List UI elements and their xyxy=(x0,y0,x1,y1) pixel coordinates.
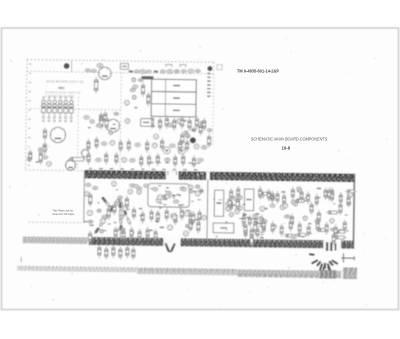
wire jumper W7 xyxy=(331,259,338,264)
resistor R79 xyxy=(115,152,118,165)
capacitor C5 xyxy=(97,64,103,68)
capacitor C11 xyxy=(160,70,165,73)
resistor R189 xyxy=(289,219,292,232)
resistor R63 xyxy=(132,206,135,219)
resistor R99 xyxy=(230,199,233,212)
silkscreen ref row xyxy=(89,168,197,171)
capacitor C3 xyxy=(85,69,90,72)
resistor R180 xyxy=(307,191,310,204)
transistor Q69 xyxy=(152,143,157,148)
capacitor C107 xyxy=(256,226,259,239)
page number 10-8 xyxy=(282,146,291,151)
transistor Q30 xyxy=(226,207,230,211)
capacitor C101 xyxy=(242,214,245,227)
capacitor C20 xyxy=(96,124,101,127)
capacitor C60 xyxy=(115,202,120,205)
capacitor C204 xyxy=(112,245,115,259)
transformer T1 xyxy=(50,127,65,142)
wire jumper W6 xyxy=(328,261,333,267)
transistor Q94 xyxy=(184,211,189,216)
lower board bottom band gap at funnel xyxy=(163,238,180,247)
header text TM 9-4935-601-14-2&P xyxy=(237,68,279,73)
svg-text:REV: REV xyxy=(59,86,65,90)
capacitor C14 xyxy=(181,70,186,73)
thyristor Q4 xyxy=(58,100,62,118)
transistor Q76 xyxy=(188,185,192,189)
capacitor C80 xyxy=(153,188,158,191)
resistor R181 xyxy=(315,194,318,207)
label L62 xyxy=(115,230,119,231)
thyristor Q3 xyxy=(53,100,57,118)
capacitor C73 xyxy=(93,186,98,189)
thyristor Q5 xyxy=(64,100,68,118)
label L70 xyxy=(193,191,196,192)
transistor Q74 xyxy=(194,144,199,149)
label L123 xyxy=(260,237,264,238)
resistor R190 xyxy=(298,221,301,234)
resistor R201 xyxy=(154,229,157,242)
label L161 xyxy=(270,198,275,199)
lower board section divider xyxy=(206,180,209,239)
resistor R84 xyxy=(156,153,159,166)
label L88 xyxy=(150,230,153,231)
label L135 xyxy=(317,188,322,189)
capacitor C51 xyxy=(185,134,190,137)
transistor Q129 xyxy=(293,202,297,206)
transistor Q158 xyxy=(330,218,335,223)
resistor R177 xyxy=(283,193,286,206)
resistor R150 xyxy=(326,211,339,214)
wire CRdw xyxy=(102,197,110,207)
relay K7 xyxy=(214,190,224,216)
resistor R70 xyxy=(189,211,192,224)
funnel wire V1 xyxy=(165,243,174,251)
label L141 xyxy=(308,223,311,224)
resistor R62 xyxy=(95,136,98,149)
resistor R192 xyxy=(316,219,319,232)
relay K8 xyxy=(244,189,253,211)
diode CRa3 xyxy=(100,221,105,226)
capacitor C105 xyxy=(244,226,247,239)
capacitor C25 xyxy=(133,85,138,89)
svg-text:TM 9-4935-601-14-2&P: TM 9-4935-601-14-2&P xyxy=(237,68,279,73)
silkscreen ref row 2 xyxy=(150,162,201,164)
capacitor C9 xyxy=(146,70,151,73)
resistor R76 xyxy=(87,151,90,164)
capacitor C78 xyxy=(182,187,186,191)
label L12 xyxy=(88,127,91,128)
upper board inner top rail (dashed) xyxy=(27,71,214,74)
relay K6 xyxy=(141,119,152,127)
transistor Q42 xyxy=(156,198,161,203)
transistor Q31 xyxy=(238,206,242,210)
transistor Q109 xyxy=(229,213,233,217)
transistor Q162 xyxy=(303,216,307,220)
capacitor C30 xyxy=(81,149,89,157)
label L92 xyxy=(155,221,158,222)
wire CRaw xyxy=(95,198,120,234)
resistor R133 xyxy=(295,199,306,202)
diode CRa2 xyxy=(105,213,110,218)
svg-text:MAIN BOARD ASSY A2: MAIN BOARD ASSY A2 xyxy=(46,79,84,84)
transistor Q163 xyxy=(280,205,285,210)
capacitor C76 xyxy=(144,184,149,187)
transistor Q80 xyxy=(122,157,127,162)
diode CRc0 xyxy=(119,202,121,207)
transistor Q57 xyxy=(100,229,104,233)
capacitor C2 xyxy=(43,156,48,159)
resistor R2 xyxy=(43,127,46,141)
resistor R119 xyxy=(250,233,253,248)
capacitor C80 xyxy=(195,185,200,188)
capacitor C15 xyxy=(188,69,194,73)
resistor R64 xyxy=(125,196,128,210)
resistor R73 xyxy=(186,139,189,152)
resistor R100 xyxy=(237,198,240,211)
capacitor C41 xyxy=(88,220,92,223)
resistor R151 xyxy=(295,233,308,236)
resistor R199 xyxy=(138,229,141,242)
relay K4 xyxy=(99,67,112,80)
resistor R146 xyxy=(328,187,331,201)
capacitor C7 xyxy=(134,70,139,73)
resistor R186 xyxy=(262,218,265,231)
diode CRc2 xyxy=(120,218,122,223)
diode CRc3 xyxy=(120,225,122,230)
transistor Q152 xyxy=(347,202,351,206)
capacitor C16 xyxy=(195,69,200,72)
resistor R197 xyxy=(122,228,125,241)
inner dashed divider horizontal y109 xyxy=(30,109,120,110)
bottom strip band middle xyxy=(137,268,237,276)
label L66 xyxy=(89,225,93,226)
capacitor C13 xyxy=(174,70,179,73)
capacitor C207 xyxy=(132,246,135,260)
capacitor C67 xyxy=(135,143,140,146)
wire jumper W8 xyxy=(309,253,314,256)
bottom strip dark blob xyxy=(319,270,336,279)
resistor R88 xyxy=(192,155,195,168)
resistor R130 xyxy=(284,234,295,237)
capacitor C203 xyxy=(105,246,108,260)
diode CRc4 xyxy=(120,233,122,238)
label L132 xyxy=(262,208,266,209)
resistor R97 xyxy=(230,188,233,201)
pad row above Q1-Q6 xyxy=(43,97,73,99)
resistor R198 xyxy=(130,226,133,239)
ic U2 xyxy=(120,64,128,70)
capacitor C23 xyxy=(130,88,135,91)
svg-text:most of it Oil Caps.: most of it Oil Caps. xyxy=(52,212,75,216)
label L118 xyxy=(256,223,260,224)
resistor R160 xyxy=(339,202,342,216)
capacitor C205 xyxy=(119,246,122,260)
resistor R61 xyxy=(195,116,198,129)
capacitor C42 xyxy=(97,209,101,212)
bottom strip left tick xyxy=(20,257,22,261)
thyristor Q2 xyxy=(47,100,51,118)
silkscreen title line xyxy=(46,79,84,84)
capacitor C106 xyxy=(250,227,253,240)
resistor R154 xyxy=(310,202,313,215)
label L79 xyxy=(166,187,169,188)
resistor R65 xyxy=(88,230,91,244)
inner dashed divider vertical x79 xyxy=(77,97,78,169)
wire jumper W10b xyxy=(335,243,337,250)
diode CRa4 xyxy=(95,228,100,233)
label L85 xyxy=(160,227,165,228)
transistor Q69 xyxy=(157,195,162,200)
capacitor C8 xyxy=(140,70,146,74)
resistor R34 xyxy=(207,134,210,148)
transistor Q27 xyxy=(132,78,136,82)
transistor Q54 xyxy=(137,190,141,194)
transistor Q52 xyxy=(192,128,196,132)
relay K3 xyxy=(151,104,196,117)
capacitor C75 xyxy=(201,146,206,149)
capacitor C72 xyxy=(86,183,91,186)
capacitor C81 xyxy=(130,159,135,162)
resistor R178 xyxy=(291,187,294,200)
resistor R194 xyxy=(334,224,337,237)
label L117 xyxy=(243,214,247,215)
wire jumper W9 xyxy=(326,242,328,251)
silkscreen rev label xyxy=(59,86,65,90)
resistor R175 xyxy=(267,189,270,202)
transistor Q40 xyxy=(163,147,170,154)
bottom strip band left xyxy=(17,266,137,272)
upper board top edge (dashed) xyxy=(27,60,214,63)
resistor R195 xyxy=(343,219,346,232)
transistor Q95 xyxy=(202,215,207,220)
capacitor C75 xyxy=(137,187,142,190)
resistor R128 xyxy=(345,190,357,193)
transistor Q64 xyxy=(110,140,115,145)
lower board left edge xyxy=(83,171,86,223)
label L72 xyxy=(178,205,182,206)
resistor R90 xyxy=(192,211,195,225)
resistor R70 xyxy=(161,138,164,151)
label L125 xyxy=(246,217,250,218)
label L120 xyxy=(254,221,258,222)
resistor R50 xyxy=(29,149,32,162)
svg-text:10-8: 10-8 xyxy=(282,146,291,151)
upper board left edge (dashed) xyxy=(25,60,27,170)
transistor Q22 xyxy=(125,119,130,124)
resistor R182 xyxy=(324,187,327,200)
transistor Q91 xyxy=(168,225,173,230)
transistor Q29 xyxy=(124,100,129,105)
transistor Q164 xyxy=(259,217,263,221)
transistor Q47 xyxy=(38,148,42,152)
resistor R196 xyxy=(114,226,117,239)
scan noise xyxy=(5,34,389,310)
capacitor C21 xyxy=(84,116,90,120)
wire drip W12 xyxy=(327,266,330,271)
resistor R58 xyxy=(173,117,176,130)
capacitor C148 xyxy=(331,228,335,231)
pad P3 xyxy=(190,137,196,143)
label L137 xyxy=(281,191,285,192)
capacitor C89 xyxy=(198,158,203,161)
resistor R121 xyxy=(244,222,247,235)
resistor R176 xyxy=(276,191,279,204)
capacitor C36 xyxy=(168,123,173,127)
transistor Q111 xyxy=(235,209,240,214)
capacitor C87 xyxy=(186,210,191,214)
wire jumper W2 xyxy=(316,261,321,267)
resistor R183 xyxy=(331,189,334,202)
resistor R98 xyxy=(237,186,240,199)
resistor R166 xyxy=(333,236,347,239)
transistor Q48 xyxy=(27,157,31,161)
resistor R15 xyxy=(105,116,108,130)
caption SCHEMATIC MAIN BOARD COMPONENTS xyxy=(251,136,327,141)
transistor Q47 xyxy=(100,218,105,223)
transistor Q30 xyxy=(132,95,136,99)
lower board top edge band xyxy=(84,170,355,181)
resistor R90 xyxy=(161,195,173,198)
wire CRbw xyxy=(119,198,131,225)
module A1 outline xyxy=(148,183,190,207)
label strip LS1 xyxy=(142,76,154,79)
resistor R78 xyxy=(105,151,108,164)
transistor Q19 xyxy=(109,131,113,135)
capacitor C71 xyxy=(170,144,175,147)
resistor R41 xyxy=(199,123,202,136)
label L114 xyxy=(231,205,235,206)
capacitor C43 xyxy=(208,129,212,132)
resistor R56 xyxy=(159,117,162,130)
resistor R171 xyxy=(317,210,320,224)
diode CR7 xyxy=(154,71,158,73)
diode CRa0 xyxy=(114,199,119,204)
transistor Q53 xyxy=(128,189,133,194)
transistor Q165 xyxy=(263,219,267,223)
transistor Q68 xyxy=(199,189,203,193)
pad row below Q1-Q6 xyxy=(42,120,72,122)
resistor R69 xyxy=(180,207,183,220)
relay K9 xyxy=(213,223,234,233)
resistor R187 xyxy=(271,221,274,234)
capacitor C167 xyxy=(284,215,290,218)
resistor R84 xyxy=(197,220,200,234)
note text block xyxy=(52,209,75,216)
label L50 xyxy=(118,228,122,229)
capacitor C77 xyxy=(96,158,101,161)
resistor R58 xyxy=(89,192,92,207)
resistor R185 xyxy=(347,194,350,207)
capacitor C24 xyxy=(138,79,143,82)
thyristor Q6 xyxy=(69,100,73,118)
label L82 xyxy=(185,226,189,227)
upper board right edge (dashed) xyxy=(213,62,214,144)
label L81 xyxy=(156,221,159,222)
label L33 xyxy=(151,126,155,127)
resistor R13 xyxy=(104,111,107,124)
transistor Q145 xyxy=(291,200,295,204)
label L159 xyxy=(301,236,304,237)
transistor Q108 xyxy=(226,202,231,207)
resistor R57 xyxy=(165,115,168,128)
capacitor C63 xyxy=(101,142,106,145)
resistor R134 xyxy=(294,199,307,202)
label L144 xyxy=(264,208,268,209)
resistor R86 xyxy=(189,218,192,232)
transistor Q140 xyxy=(297,188,302,193)
diode CRa1 xyxy=(109,206,114,211)
label L124 xyxy=(255,213,259,214)
wire CRcw xyxy=(120,201,123,239)
resistor R66 xyxy=(127,139,130,152)
resistor R71 xyxy=(198,209,201,222)
transistor Q45 xyxy=(47,162,52,167)
label L14 xyxy=(113,124,116,125)
connector J1 xyxy=(207,73,211,97)
resistor R3 xyxy=(43,141,46,155)
resistor R174 xyxy=(259,186,262,199)
transistor Q110 xyxy=(233,196,237,200)
label L48 xyxy=(109,206,113,207)
resistor R82 xyxy=(140,154,143,167)
silkscreen designators left section xyxy=(89,184,202,232)
corner pad P2 xyxy=(207,66,212,71)
resistor R68 xyxy=(146,140,149,153)
diode CRd1 xyxy=(102,197,107,202)
resistor R131 xyxy=(259,192,270,195)
mounting hole H1 xyxy=(64,63,70,69)
wire jumper W3 xyxy=(319,263,323,270)
resistor R65 xyxy=(119,139,122,152)
relay K1 xyxy=(152,79,197,92)
transistor Q11 xyxy=(122,206,127,211)
capacitor C74 xyxy=(130,184,135,187)
resistor R65 xyxy=(150,209,153,222)
transistor Q89 xyxy=(171,213,176,218)
diode CRb1 xyxy=(123,209,127,215)
transistor Q96 xyxy=(172,215,177,220)
transistor Q51 xyxy=(84,191,89,196)
capacitor C71 xyxy=(189,190,193,193)
inductor L1 xyxy=(68,157,86,161)
capacitor C46 xyxy=(121,228,125,231)
capacitor C104 xyxy=(260,215,263,228)
capacitor C56 xyxy=(102,215,107,218)
capacitor C82 xyxy=(180,187,185,190)
capacitor C11 xyxy=(114,112,118,115)
wire jumper W5 xyxy=(327,263,331,270)
capacitor C122 xyxy=(253,214,258,217)
resistor R115 xyxy=(236,197,239,212)
lower board top band gap xyxy=(166,171,179,179)
label L73 xyxy=(172,195,176,196)
resistor R143 xyxy=(332,232,335,246)
capacitor C138 xyxy=(270,204,275,208)
transistor Q173 xyxy=(348,192,353,197)
resistor R55 xyxy=(150,115,153,128)
lower board bottom band gap at fan xyxy=(323,240,341,249)
label L116 xyxy=(242,215,245,216)
diode CRb2 xyxy=(127,218,131,224)
transistor Q147 xyxy=(271,224,276,229)
label L42 xyxy=(182,120,186,121)
svg-text:2 64103 9114 4303: 2 64103 9114 4303 xyxy=(45,94,74,98)
capacitor C49 xyxy=(42,147,47,151)
capacitor C4 xyxy=(91,69,96,72)
relay K2 xyxy=(151,92,196,105)
resistor R126 xyxy=(262,219,265,234)
label L67 xyxy=(163,199,167,200)
